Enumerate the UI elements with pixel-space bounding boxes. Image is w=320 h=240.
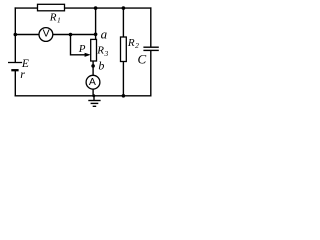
capacitor C bottom plate [143, 49, 158, 51]
wire potentiometer slider [71, 35, 87, 55]
svg-text:R: R [96, 44, 104, 56]
svg-text:2: 2 [135, 41, 139, 50]
wire left rail upper [14, 7, 16, 62]
svg-text:R: R [127, 37, 135, 49]
wire R3 bottom branch to ammeter and ground [92, 61, 94, 96]
node junction ammeter ground tee [92, 94, 95, 97]
node b [91, 64, 95, 68]
battery E long plate [8, 62, 22, 64]
wire bottom [15, 95, 152, 97]
node junction left rail / voltmeter wire [14, 33, 18, 37]
capacitor C top plate [143, 46, 158, 48]
resistor R1 [38, 4, 65, 11]
resistor R3 [91, 39, 97, 61]
svg-text:b: b [98, 58, 104, 72]
wire voltmeter row [15, 34, 95, 36]
wire right rail lower [150, 51, 152, 97]
wire right rail upper [150, 7, 152, 46]
wire R2 branch [122, 8, 124, 96]
svg-text:r: r [20, 67, 25, 81]
ground [88, 96, 100, 107]
svg-text:1: 1 [57, 15, 61, 24]
ammeter A1 circle [86, 75, 100, 89]
node junction R2 bottom tee [122, 94, 126, 98]
battery E short plate [11, 69, 18, 71]
svg-text:V: V [43, 27, 50, 39]
wire top [15, 7, 152, 9]
svg-text:3: 3 [104, 49, 109, 58]
wire R3 top branch [95, 8, 97, 39]
svg-text:C: C [138, 52, 147, 67]
svg-text:a: a [101, 27, 108, 42]
wire left rail lower [14, 70, 16, 96]
resistor R2 [121, 37, 127, 62]
voltmeter V1 circle [39, 28, 53, 42]
node junction slider tee [69, 33, 73, 37]
slider arrowhead [85, 53, 91, 57]
node a [94, 33, 98, 37]
node junction R3 top tee [94, 6, 98, 10]
svg-text:R: R [49, 12, 57, 24]
svg-text:A: A [89, 76, 96, 88]
node junction R2 top tee [122, 6, 126, 10]
svg-text:P: P [78, 43, 86, 55]
